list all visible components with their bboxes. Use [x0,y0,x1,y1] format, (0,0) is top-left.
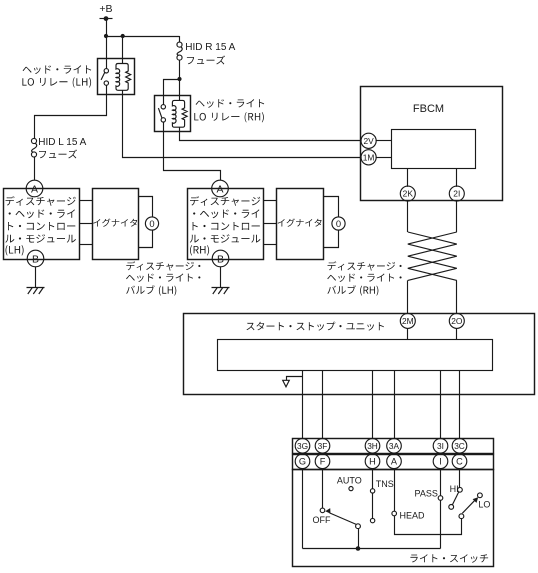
wire PASS down [440,500,442,548]
contact TNS top [370,489,374,493]
wire G down [302,468,304,548]
wire switch common [303,548,441,550]
svg-text:3H: 3H [367,441,378,451]
connector 2O [449,313,464,328]
svg-text:C: C [456,457,463,467]
relay RH coil and resistor [172,100,187,127]
svg-text:HI: HI [450,484,459,494]
svg-text:+B: +B [99,3,112,15]
wire 2O to inner bar [456,328,458,340]
wire HEAD to dimmer pivot [395,516,462,535]
wire A to HEAD contact [394,468,396,511]
wire inner box to 2I [456,169,458,187]
svg-text:A: A [216,183,223,195]
connector band row 2 [293,455,494,470]
wire inner box to 2K [407,169,409,187]
wire OFF pivot down [358,529,360,549]
contact HI [458,487,463,492]
relay LH switch contact bottom [104,81,108,85]
ground RH module [212,288,230,295]
svg-text:3C: 3C [454,441,465,451]
connector A LH [26,180,43,197]
connector 2M [400,313,415,328]
module RH to igniter stub 1 [264,200,277,202]
contact PASS [438,496,443,501]
power terminal +B [100,18,113,20]
module LH label [6,196,76,206]
svg-text:I: I [439,457,442,467]
svg-text:FBCM: FBCM [413,103,444,115]
connector band row 1 [293,439,494,454]
module RH label [190,196,260,206]
wire 2I down [456,201,458,232]
wire unit to 3C [459,370,461,439]
relay RH label [196,99,265,108]
svg-text:2V: 2V [363,136,374,146]
igniter RH box [277,189,324,260]
svg-text:TNS: TNS [376,479,394,489]
start-stop inner bar [218,340,493,371]
module RH to igniter stub 2 [264,223,277,225]
contact TNS bottom [370,518,374,522]
contact OFF [320,508,325,513]
svg-text:3A: 3A [389,441,400,451]
contact LO [478,493,483,498]
svg-text:2I: 2I [453,189,460,199]
relay RH switch arm [158,108,162,118]
junction dot bus LH switch [104,34,108,38]
module LH to igniter stub 2 [79,223,92,225]
contact HEAD [392,511,397,516]
wire fuse R to junction [179,60,181,100]
wire H to TNS contact [372,468,374,488]
svg-text:HID L 15 A: HID L 15 A [38,137,86,148]
light switch box [293,470,494,567]
svg-text:A: A [31,183,38,195]
wire twist to 2O [456,280,458,313]
wire igniter RH to bulb top [323,197,339,218]
light switch label [410,554,488,563]
wire bulb LH bottom [139,230,153,248]
relay RH switch contact bottom [161,118,165,122]
contact AUTO [349,487,353,491]
HID control module LH box [4,189,80,260]
svg-text:2O: 2O [451,316,463,326]
relay RH box [155,96,191,132]
wire igniter LH to bulb top [139,197,153,218]
twisted pair wires [408,232,457,280]
svg-text:3G: 3G [297,441,308,451]
igniter LH box [93,189,139,260]
bulb connector 0 RH [332,217,345,230]
wire twist to 2M [407,280,409,313]
contact HI arm lower [449,505,454,510]
bulb RH label [328,261,402,270]
svg-text:3I: 3I [437,441,444,451]
connector A RH [212,180,229,197]
fuse F-R HID R 15 A [177,47,182,56]
wire bus to relay LH coil [122,36,124,64]
svg-text:0: 0 [336,218,341,229]
wire 2M to inner bar [407,328,409,340]
switch arm OFF with arrow [330,513,357,525]
module LH to igniter stub 1 [79,200,92,202]
wire 2V to inner box [376,140,392,142]
svg-text:A: A [391,457,398,467]
connector 2I [449,186,464,201]
switch arm HI [452,492,458,505]
wire stubs between rows [302,453,304,455]
svg-text:G: G [299,457,306,467]
wire C to HI contact [459,468,461,487]
wire 2K down [407,201,409,232]
junction dot switch common [356,546,361,551]
wire unit to 3H [372,370,374,439]
svg-text:AUTO: AUTO [337,475,362,485]
bulb LH label [126,261,200,270]
FBCM box [361,87,503,201]
switch arm LO with arrow [462,500,475,513]
connector 2V [361,133,376,148]
FBCM inner box [392,130,476,169]
junction dot bus LH coil [121,34,125,38]
svg-text:PASS: PASS [415,488,438,498]
wire bulb RH bottom [323,230,339,248]
ground arrow start-stop unit [287,377,303,381]
wire unit to 3G [302,370,304,439]
svg-text:LO: LO [478,499,490,509]
ground LH module [27,288,45,295]
start-stop unit box [184,314,535,395]
svg-text:1M: 1M [363,152,375,162]
wire TNS segment [372,493,374,518]
wire relay RH coil to 2V [180,127,362,140]
contact OFF pivot [356,524,361,529]
relay LH label [23,65,92,74]
relay LH switch contact top [104,69,108,73]
svg-text:3F: 3F [318,441,328,451]
svg-text:F: F [320,457,326,467]
fuse F-L HID L 15 A [32,143,37,152]
svg-text:H: H [369,457,376,467]
start-stop unit label [247,322,385,331]
svg-text:HEAD: HEAD [400,510,426,520]
svg-text:B: B [32,253,39,265]
wire B LH to ground [35,267,37,288]
igniter RH label [278,219,322,227]
connector 1M [361,150,376,165]
relay LH coil and resistor [116,64,131,91]
wire unit to 3F [322,370,324,439]
wire relay LH switch to fuse L [35,85,107,139]
wire I to PASS contact [440,468,442,495]
relay RH switch contact top [161,105,165,109]
wire fuse L to connector A LH [34,156,36,180]
wire 1M to inner box [376,157,392,159]
svg-text:HID R 15 A: HID R 15 A [185,42,235,53]
wire relay LH coil to 1M [123,90,362,157]
svg-text:0: 0 [149,218,154,229]
wire relay RH switch to connector A RH [164,122,221,180]
junction dot fuse R [177,77,181,81]
connectors 3G 3F 3H 3A 3I 3C [295,439,310,454]
connectors G F H A I C [295,454,310,469]
svg-text:OFF: OFF [313,515,331,525]
svg-text:2K: 2K [403,189,414,199]
relay LH box [98,59,135,95]
svg-text:2M: 2M [402,316,414,326]
wire +B down [106,19,108,36]
wire bus to relay LH switch [106,36,108,69]
wire unit to 3A [394,370,396,439]
connector 2K [400,186,415,201]
HID control module RH box [188,189,264,260]
wire junction to relay RH switch [164,80,180,105]
wire B RH to ground [220,267,222,288]
wire unit to 3I [440,370,442,439]
module LH to igniter stub 3 [79,244,92,246]
connector B RH [212,250,229,267]
wire bus to fuse R [179,36,181,42]
module RH to igniter stub 3 [264,244,277,246]
contact dimmer pivot [459,514,464,519]
igniter LH label [93,219,137,227]
svg-text:B: B [217,253,224,265]
connector B LH [27,250,44,267]
relay LH switch arm [101,72,105,80]
wire top bus [106,36,180,38]
wire F to OFF contact [322,468,324,508]
bulb connector 0 LH [145,217,158,230]
